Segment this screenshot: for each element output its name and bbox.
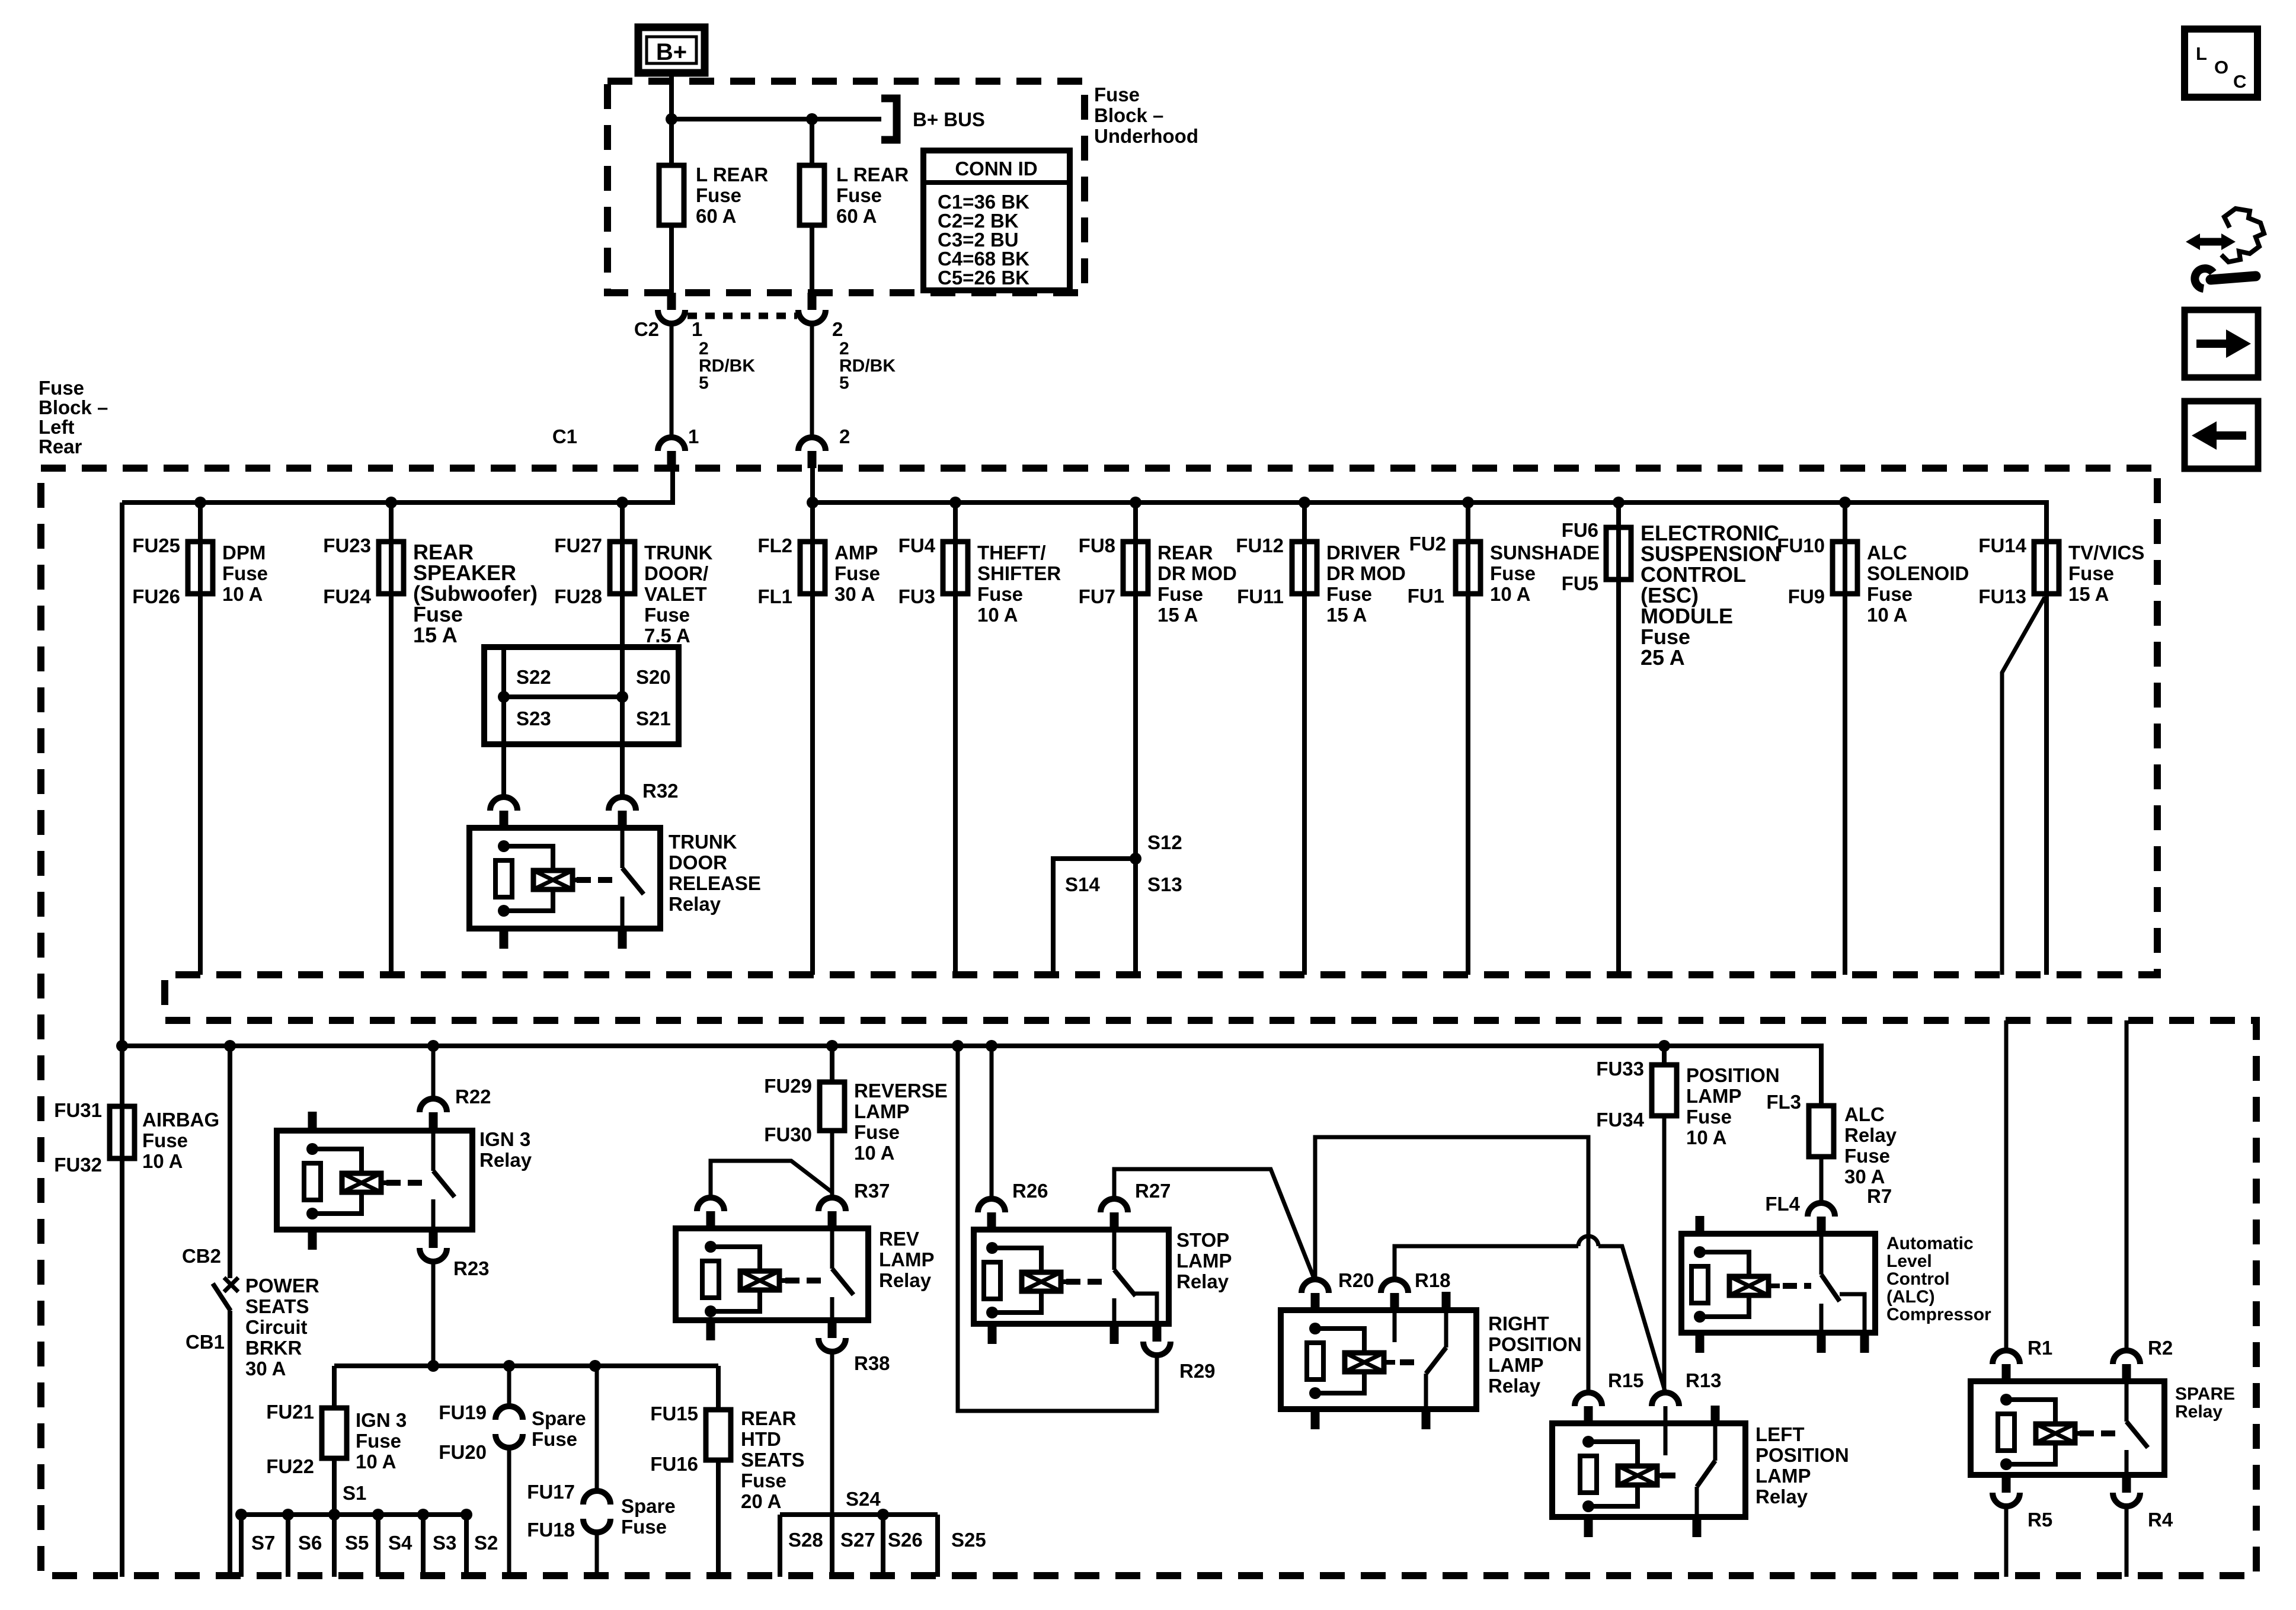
spare fuse FU19/FU20	[495, 1406, 523, 1420]
splice box S20-S23	[484, 647, 679, 744]
connector REV coil cup	[697, 1198, 724, 1211]
connector R7 cup	[1808, 1203, 1835, 1217]
connector R4 cup	[2113, 1493, 2140, 1506]
svg-text:FU5: FU5	[1562, 572, 1598, 594]
svg-text:LAMP: LAMP	[1176, 1250, 1232, 1272]
wire+fuse ALC SOLENOID FU10/FU9	[1843, 502, 1847, 975]
relay IGN 3 coil circuit	[306, 1143, 318, 1155]
svg-text:R4: R4	[2148, 1509, 2173, 1531]
svg-text:FL4: FL4	[1765, 1193, 1800, 1215]
spare fuse FU17/FU18	[583, 1491, 610, 1505]
connector R2 cup	[2113, 1350, 2140, 1364]
relay IGN 3 switch bottom stub	[429, 1230, 438, 1248]
wire splice box left leg	[501, 647, 506, 798]
svg-text:S2: S2	[474, 1532, 498, 1554]
svg-text:FU32: FU32	[54, 1154, 102, 1176]
svg-text:Relay: Relay	[479, 1149, 532, 1171]
node dot esc branch	[1613, 497, 1625, 508]
fuse REVERSE LAMP FU29/FU30	[820, 1082, 845, 1131]
svg-text:10 A: 10 A	[142, 1150, 183, 1172]
wire+fuse REAR DR MOD FU8/FU7	[1133, 502, 1138, 975]
svg-text:Automatic: Automatic	[1886, 1234, 1974, 1253]
svg-text:15 A: 15 A	[1157, 604, 1198, 626]
svg-text:20 A: 20 A	[741, 1490, 781, 1512]
node dot trunk door branch	[616, 497, 628, 508]
svg-text:30 A: 30 A	[1844, 1166, 1885, 1188]
svg-text:FU31: FU31	[54, 1099, 102, 1121]
wire circuit 2 RD/BK right	[810, 322, 814, 438]
svg-text:Block –: Block –	[39, 396, 108, 418]
wire+fuse THEFT/SHIFTER FU4/FU3	[953, 502, 958, 975]
connector R20 cup	[1302, 1279, 1329, 1293]
svg-text:10 A: 10 A	[356, 1451, 396, 1473]
splice comb tooth 3	[332, 1515, 337, 1577]
svg-text:R5: R5	[2028, 1509, 2052, 1531]
wire FU21 to splice comb	[332, 1458, 337, 1515]
relay RIGHT POSITION LAMP box	[1281, 1310, 1476, 1409]
relay STOP LAMP switch	[1112, 1230, 1117, 1270]
wire+fuse SUNSHADE FU2/FU1	[1466, 502, 1470, 975]
svg-text:L REAR: L REAR	[696, 164, 768, 185]
svg-text:SHIFTER: SHIFTER	[977, 562, 1061, 584]
svg-text:Relay: Relay	[2175, 1402, 2223, 1422]
diagnostic wrench icon	[2193, 238, 2227, 246]
svg-text:S4: S4	[388, 1532, 412, 1554]
svg-text:FU1: FU1	[1408, 585, 1444, 607]
svg-text:10 A: 10 A	[1867, 604, 1907, 626]
svg-text:FU3: FU3	[898, 585, 935, 607]
relay REV switch bottom stub	[828, 1320, 837, 1338]
relay ALC compressor box	[1681, 1234, 1875, 1333]
connector R27 stub	[1110, 1212, 1119, 1230]
relay STOP LAMP box	[974, 1230, 1169, 1324]
svg-text:C2: C2	[634, 318, 659, 340]
svg-text:S22: S22	[516, 666, 551, 688]
relay STOP LAMP dashed link	[1066, 1279, 1103, 1285]
svg-text:15 A: 15 A	[2068, 583, 2109, 605]
svg-text:DR MOD: DR MOD	[1157, 562, 1237, 584]
node dot stop coil feed	[986, 1040, 997, 1052]
node dot splice comb 6	[461, 1509, 472, 1521]
relay IGN 3 dashed link	[386, 1180, 423, 1186]
svg-text:R15: R15	[1608, 1369, 1644, 1391]
relay RIGHT POSITION coil bottom stub	[1311, 1409, 1320, 1429]
svg-text:FU23: FU23	[323, 534, 371, 556]
svg-text:Relay: Relay	[1176, 1270, 1229, 1292]
svg-text:REVERSE: REVERSE	[854, 1080, 948, 1102]
svg-text:FL3: FL3	[1766, 1091, 1801, 1113]
svg-text:Fuse: Fuse	[532, 1428, 577, 1450]
svg-text:FL1: FL1	[757, 585, 792, 607]
svg-text:R2: R2	[2148, 1337, 2173, 1359]
svg-text:POSITION: POSITION	[1686, 1064, 1780, 1086]
svg-text:S3: S3	[433, 1532, 456, 1554]
svg-text:LEFT: LEFT	[1755, 1423, 1804, 1445]
svg-text:FU9: FU9	[1788, 585, 1825, 607]
connector R23 cup	[420, 1248, 447, 1262]
node dot splice comb 4	[372, 1509, 384, 1521]
svg-text:Fuse: Fuse	[977, 583, 1023, 605]
node dot circuit breaker branch	[224, 1040, 236, 1052]
node dot reverse lamp branch	[826, 1040, 838, 1052]
connector R32 stub	[618, 811, 627, 828]
svg-text:FU12: FU12	[1236, 534, 1284, 556]
svg-text:THEFT/: THEFT/	[977, 542, 1045, 564]
svg-text:RIGHT: RIGHT	[1488, 1313, 1549, 1334]
fuse ALC RELAY FL3/FL4	[1809, 1106, 1834, 1157]
svg-text:TRUNK: TRUNK	[644, 542, 713, 564]
svg-text:POSITION: POSITION	[1488, 1333, 1582, 1355]
svg-text:R32: R32	[642, 780, 679, 802]
relay STOP output stub	[1153, 1324, 1162, 1342]
svg-text:FU4: FU4	[898, 534, 936, 556]
relay LEFT POSITION switch	[1664, 1423, 1668, 1455]
fuse block left rear dashed outline	[41, 468, 2256, 1576]
svg-text:B+: B+	[656, 39, 687, 65]
back arrow box	[2185, 401, 2258, 469]
wire B+ bus horizontal	[671, 117, 881, 121]
wire circuit breaker lower	[228, 1311, 232, 1577]
wire rail to FU21	[332, 1366, 337, 1408]
node dot rear speaker branch	[385, 497, 397, 508]
svg-text:Fuse: Fuse	[1157, 583, 1203, 605]
svg-text:15 A: 15 A	[413, 623, 458, 647]
relay LEFT POSITION switch bottom stub	[1693, 1517, 1702, 1537]
svg-text:Fuse: Fuse	[222, 562, 268, 584]
node dot splice comb 3	[328, 1509, 340, 1521]
wire spare fuse 2 lower	[595, 1532, 599, 1577]
svg-text:1: 1	[688, 425, 699, 447]
svg-text:LAMP: LAMP	[854, 1100, 910, 1122]
fuse TRUNK DOOR/VALET FU27/FU28	[610, 542, 635, 594]
wire rail to FU15	[716, 1366, 721, 1410]
svg-text:Level: Level	[1886, 1251, 1932, 1271]
connector R26 stub	[987, 1212, 996, 1230]
svg-text:10 A: 10 A	[1490, 583, 1530, 605]
connector R13 cup	[1652, 1393, 1679, 1406]
svg-text:Block –: Block –	[1094, 104, 1163, 126]
svg-text:FU29: FU29	[764, 1075, 812, 1097]
connector R22 stub	[429, 1112, 438, 1131]
svg-text:FU19: FU19	[439, 1401, 487, 1423]
relay LEFT POSITION aux top stub	[1711, 1406, 1720, 1423]
svg-text:Fuse: Fuse	[2068, 562, 2114, 584]
svg-text:FU8: FU8	[1079, 534, 1115, 556]
relay TRUNK coil circuit	[498, 840, 510, 852]
svg-text:FU17: FU17	[527, 1481, 575, 1503]
node junction dot at B+ bus right	[806, 113, 818, 125]
splice comb b tooth 4	[935, 1515, 940, 1577]
svg-text:ALC: ALC	[1867, 542, 1907, 564]
wire L REAR fuse 2 upper	[810, 119, 814, 165]
svg-text:SPARE: SPARE	[2175, 1384, 2235, 1404]
svg-text:Fuse: Fuse	[1844, 1145, 1890, 1167]
connector C4 left stub	[500, 811, 509, 828]
svg-text:FU21: FU21	[266, 1401, 314, 1423]
node dot spare fuse 2 rail	[589, 1360, 601, 1372]
svg-text:S7: S7	[251, 1532, 275, 1554]
relay ALC output bottom stub	[1860, 1333, 1869, 1353]
connector C2 pin 2 stub	[808, 293, 817, 310]
svg-text:Fuse: Fuse	[834, 562, 880, 584]
svg-text:10 A: 10 A	[854, 1142, 894, 1164]
splice comb tooth 2	[286, 1515, 290, 1577]
connector R32 cup	[609, 797, 636, 811]
svg-text:S27: S27	[840, 1529, 875, 1551]
svg-text:FL2: FL2	[757, 534, 792, 556]
node dot driver door module branch	[1299, 497, 1310, 508]
relay ALC dashed link	[1783, 1283, 1811, 1289]
svg-text:(ALC): (ALC)	[1886, 1287, 1935, 1307]
svg-text:FU20: FU20	[439, 1441, 487, 1463]
svg-text:SOLENOID: SOLENOID	[1867, 562, 1969, 584]
connector R37 stub	[828, 1211, 837, 1228]
svg-text:10 A: 10 A	[977, 604, 1018, 626]
wire R13 into box	[1664, 1406, 1668, 1423]
wire+fuse ESC MODULE FU6/FU5	[1616, 502, 1621, 975]
wire splice tie	[504, 694, 622, 699]
relay IGN 3 switch	[431, 1131, 436, 1171]
node dot position lamp branch	[1658, 1040, 1670, 1052]
relay TRUNK DOOR RELEASE box	[469, 828, 660, 929]
node dot splice comb 5	[417, 1509, 429, 1521]
svg-text:FU6: FU6	[1562, 519, 1598, 541]
CONN ID table	[923, 151, 1070, 290]
wire rail to spare fuse 2	[595, 1366, 599, 1491]
svg-text:FU25: FU25	[132, 534, 180, 556]
svg-text:R1: R1	[2028, 1337, 2052, 1359]
wire R4 lower	[2125, 1505, 2129, 1577]
svg-text:CONN ID: CONN ID	[955, 158, 1037, 180]
node dot spare fuse 1 rail	[503, 1360, 515, 1372]
node dot R23 joins rail	[427, 1360, 439, 1372]
svg-text:FU2: FU2	[1409, 533, 1446, 555]
svg-text:LAMP: LAMP	[879, 1249, 935, 1270]
connector R15 cup	[1575, 1393, 1602, 1406]
svg-text:LAMP: LAMP	[1488, 1354, 1544, 1376]
connector C2 pin 1 cup	[658, 310, 685, 324]
svg-text:S26: S26	[888, 1529, 923, 1551]
svg-text:FU24: FU24	[323, 585, 371, 607]
relay RIGHT POSITION dashed link	[1400, 1359, 1416, 1365]
svg-text:Fuse: Fuse	[836, 184, 882, 206]
svg-text:Fuse: Fuse	[1490, 562, 1536, 584]
wire spare fuse 1 lower	[507, 1448, 511, 1577]
wire position lamp upper	[1662, 1046, 1667, 1065]
wire position lamp relay loop	[1315, 1137, 1588, 1394]
relay STOP LAMP coil circuit	[986, 1242, 998, 1254]
wire TV/VICS fork diagonal	[2002, 597, 2045, 975]
svg-text:S6: S6	[298, 1532, 322, 1554]
svg-text:DPM: DPM	[222, 542, 266, 564]
relay REV LAMP box	[676, 1228, 868, 1320]
connector C1 pin 1 cup	[658, 437, 685, 451]
relay ALC switch	[1819, 1234, 1824, 1275]
relay ALC coil bottom stub	[1696, 1333, 1705, 1353]
splice comb S7-S2 rail	[241, 1512, 466, 1517]
wire L REAR fuse 1 upper	[669, 119, 674, 165]
wire R23 to rail	[431, 1262, 436, 1366]
node dot rear door module branch	[1130, 497, 1141, 508]
svg-text:S25: S25	[951, 1529, 986, 1551]
svg-text:DRIVER: DRIVER	[1326, 542, 1400, 564]
relay STOP contact bottom stub	[1110, 1324, 1119, 1344]
connector C1 pin 2 cup	[798, 437, 826, 451]
fuse AMP FL2/FL1	[800, 542, 825, 594]
relay SPARE switch	[2125, 1381, 2129, 1422]
connector R2 stub	[2122, 1364, 2131, 1381]
relay ALC contact bottom stub	[1817, 1333, 1826, 1353]
wire TRUNK DOOR branch upper	[620, 502, 625, 647]
relay IGN 3 coil bottom stub	[308, 1230, 317, 1250]
svg-text:S12: S12	[1147, 831, 1182, 853]
svg-text:IGN 3: IGN 3	[479, 1128, 530, 1150]
svg-text:60 A: 60 A	[836, 205, 877, 227]
svg-text:FU30: FU30	[764, 1124, 812, 1145]
wire+fuse DPM branch FU25/FU26	[198, 502, 203, 975]
fuse L REAR 60A right (FU underhood)	[800, 165, 824, 225]
wire L REAR fuse 1 lower	[669, 225, 674, 293]
svg-text:10 A: 10 A	[1686, 1126, 1726, 1148]
svg-text:RELEASE: RELEASE	[669, 872, 761, 894]
node dot sunshade branch	[1462, 497, 1474, 508]
wire main bus segment 2	[813, 502, 2046, 542]
B+ battery feed symbol	[638, 27, 705, 73]
svg-text:Fuse: Fuse	[39, 377, 84, 399]
connector R20 stub	[1311, 1293, 1320, 1310]
connector R1 cup	[1993, 1350, 2020, 1364]
svg-text:10 A: 10 A	[222, 583, 263, 605]
svg-text:Fuse: Fuse	[356, 1430, 401, 1452]
svg-text:R37: R37	[854, 1180, 890, 1202]
svg-text:LAMP: LAMP	[1686, 1085, 1742, 1107]
connector R37 cup	[818, 1198, 846, 1211]
svg-text:R26: R26	[1012, 1180, 1048, 1202]
wire circuit 2 RD/BK left	[670, 322, 674, 438]
svg-text:SEATS: SEATS	[741, 1449, 805, 1471]
splice comb tooth 1	[239, 1515, 244, 1577]
LOC reference box	[2185, 29, 2257, 97]
node dot theft branch	[949, 497, 961, 508]
relay SPARE dashed link	[2080, 1430, 2116, 1436]
splice comb tooth 4	[376, 1515, 380, 1577]
svg-text:Relay: Relay	[1755, 1486, 1808, 1507]
splice comb b tooth 3	[881, 1515, 885, 1577]
relay ALC coil circuit	[1694, 1246, 1706, 1258]
svg-text:S21: S21	[636, 708, 671, 729]
svg-text:FU10: FU10	[1777, 534, 1825, 556]
relay REV coil bottom stub	[706, 1320, 715, 1340]
svg-text:5: 5	[839, 373, 849, 393]
node dot S24 splice	[877, 1509, 889, 1521]
connector R38 cup	[818, 1338, 846, 1352]
connector C1 pin 2 stub	[808, 451, 817, 468]
svg-text:S20: S20	[636, 666, 671, 688]
svg-text:REV: REV	[879, 1228, 919, 1250]
wire seat/spare rail	[334, 1363, 718, 1368]
connector R18 stub	[1390, 1293, 1399, 1310]
svg-text:Relay: Relay	[879, 1269, 932, 1291]
connector R15 stub	[1584, 1406, 1593, 1423]
wire left feed vertical (runs to lower band)	[120, 502, 124, 1577]
relay LEFT POSITION LAMP box	[1552, 1423, 1745, 1517]
wire lower bus	[122, 1046, 1821, 1106]
relay TRUNK coil bottom stub	[500, 929, 509, 949]
connector C1 pin 1 stub	[667, 451, 676, 468]
wire+fuse DRIVER DR MOD FU12/FU11	[1302, 502, 1307, 975]
connector R18 cup	[1381, 1279, 1408, 1293]
svg-text:FU18: FU18	[527, 1519, 575, 1541]
wire R5 lower	[2004, 1505, 2009, 1577]
node dot splice comb 1	[235, 1509, 247, 1521]
svg-text:R23: R23	[453, 1257, 490, 1279]
relay LEFT POSITION coil circuit	[1582, 1436, 1594, 1448]
wire R27 link	[1114, 1169, 1315, 1281]
svg-text:REAR: REAR	[741, 1407, 797, 1429]
svg-text:FU11: FU11	[1237, 585, 1284, 607]
wire S14 stub	[1053, 859, 1136, 975]
relay STOP coil bottom stub	[988, 1324, 997, 1344]
wire to R22	[431, 1046, 436, 1100]
svg-text:Fuse: Fuse	[1867, 583, 1913, 605]
circuit breaker CB2/CB1 contact cross	[224, 1278, 238, 1292]
svg-text:2: 2	[839, 425, 850, 447]
connector R26 cup	[978, 1199, 1005, 1212]
node dot lower bus at left vertical	[116, 1040, 128, 1052]
wire splice box right leg	[620, 647, 625, 798]
relay ALC coil top stub	[1696, 1216, 1705, 1234]
svg-text:R20: R20	[1338, 1269, 1374, 1291]
fuse L REAR 60A left (FU underhood)	[659, 165, 684, 225]
svg-text:FU33: FU33	[1596, 1058, 1644, 1080]
node dot S12 splice	[1130, 853, 1141, 865]
svg-text:FU28: FU28	[554, 585, 602, 607]
svg-text:S24: S24	[846, 1488, 881, 1510]
svg-text:7.5 A: 7.5 A	[644, 625, 690, 646]
svg-text:S28: S28	[788, 1529, 823, 1551]
svg-text:S23: S23	[516, 708, 551, 729]
relay RIGHT POSITION aux top stub	[1442, 1292, 1451, 1310]
svg-text:Fuse: Fuse	[1686, 1106, 1732, 1128]
svg-text:VALET: VALET	[644, 583, 707, 605]
node dot AMP branch	[807, 497, 818, 508]
svg-text:HTD: HTD	[741, 1428, 781, 1450]
svg-text:25 A: 25 A	[1641, 645, 1685, 670]
relay SPARE switch bottom stub	[2122, 1475, 2131, 1493]
svg-text:AIRBAG: AIRBAG	[142, 1109, 219, 1131]
svg-text:DOOR/: DOOR/	[644, 562, 708, 584]
dotted connector tie line	[687, 313, 797, 319]
relay TRUNK dashed link	[577, 877, 613, 883]
node dot splice comb 2	[282, 1509, 294, 1521]
svg-text:FU16: FU16	[650, 1453, 698, 1475]
svg-text:FU15: FU15	[650, 1403, 698, 1425]
svg-text:C5=26 BK: C5=26 BK	[938, 267, 1029, 289]
svg-text:S14: S14	[1065, 873, 1100, 895]
svg-text:Fuse: Fuse	[621, 1516, 667, 1538]
wire+fuse TV/VICS FU14/FU13	[2044, 542, 2049, 975]
svg-text:R27: R27	[1135, 1180, 1171, 1202]
relay RIGHT POSITION switch bottom stub	[1422, 1409, 1431, 1429]
svg-text:Relay: Relay	[1488, 1375, 1541, 1397]
wire B+ to bus	[669, 73, 674, 119]
svg-text:Rear: Rear	[39, 436, 82, 457]
svg-text:TRUNK: TRUNK	[669, 831, 737, 853]
wire L REAR fuse 2 lower	[810, 225, 814, 293]
circuit breaker blade	[213, 1283, 231, 1311]
fuse block underhood dashed box	[607, 81, 1085, 293]
wire R38 to splice comb	[830, 1350, 834, 1515]
